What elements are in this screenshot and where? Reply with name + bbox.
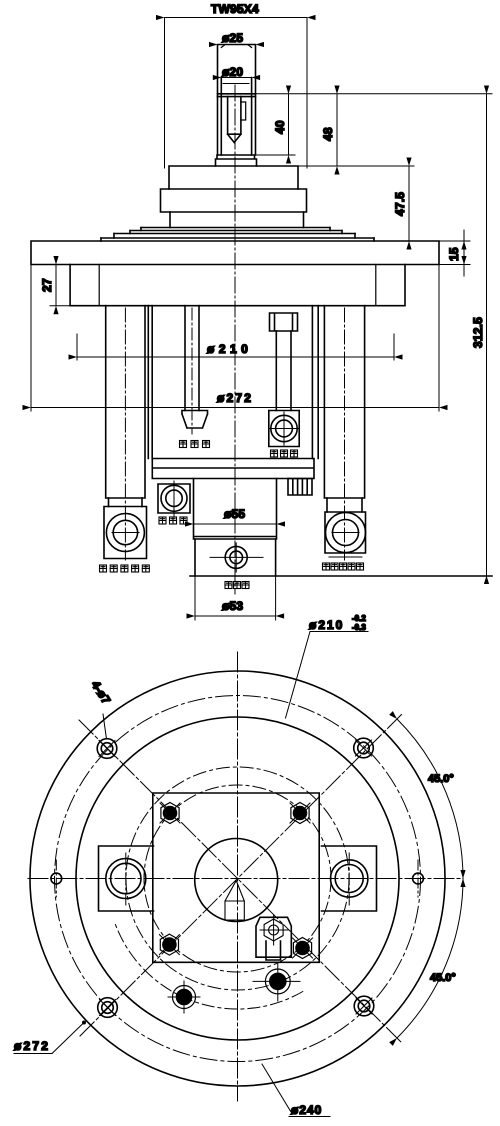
thread relief lines	[218, 94, 256, 97]
label outlet port	[271, 450, 298, 457]
diagonal hole TL	[97, 739, 117, 759]
dim ø25	[218, 44, 256, 46]
svg-text:15: 15	[447, 247, 461, 261]
svg-text:TW95X4: TW95X4	[211, 2, 259, 16]
dashed arc r130 through B5	[115, 923, 303, 1009]
svg-text:-0.2: -0.2	[352, 614, 366, 623]
left cylinder	[106, 306, 145, 498]
central keyway pocket	[225, 881, 244, 921]
diagonal hole BL	[98, 998, 118, 1018]
svg-text:48: 48	[321, 127, 335, 141]
right cylinder	[324, 306, 364, 498]
ring section 27	[70, 265, 405, 306]
corner bolt B3	[159, 934, 179, 955]
dim TW95X4	[165, 18, 308, 169]
spigot circle ø210	[76, 717, 399, 1040]
flange ø272	[31, 241, 439, 265]
shaft ø25 sleeve	[218, 45, 256, 156]
bolt B6	[253, 962, 300, 1001]
suction plug	[182, 411, 208, 429]
dim 47.5	[408, 166, 410, 241]
label right makeup oil	[323, 563, 364, 570]
svg-text:ø20: ø20	[222, 65, 243, 79]
svg-text:312.5: 312.5	[471, 317, 485, 348]
dashed circle inner r111	[126, 767, 349, 990]
dim 312.5	[486, 94, 488, 576]
comb plug right	[288, 479, 312, 496]
bolt circle ø240 dashed	[55, 696, 421, 1062]
right big fitting	[325, 512, 366, 553]
svg-text:-0.3: -0.3	[352, 623, 366, 632]
body barrel	[170, 212, 304, 228]
right port boss	[322, 846, 377, 911]
svg-text:27: 27	[40, 278, 54, 292]
dim 15	[439, 230, 470, 276]
label left drain	[100, 565, 150, 572]
bolt B5 below square	[168, 981, 200, 1013]
valve block	[256, 917, 291, 957]
svg-text:ø210: ø210	[207, 342, 252, 356]
pump plate	[152, 459, 314, 479]
corner bolt B4	[293, 938, 313, 959]
bell steps	[101, 228, 374, 239]
hex screw B7	[260, 915, 288, 945]
dim ø20	[221, 77, 251, 79]
dim 40	[257, 94, 296, 155]
svg-text:ø240: ø240	[291, 1103, 322, 1117]
svg-text:ø272: ø272	[14, 1039, 50, 1053]
center block ø55	[194, 479, 277, 540]
dim 48	[336, 94, 338, 166]
svg-text:47.5: 47.5	[393, 192, 407, 216]
outlet bolt head	[270, 313, 298, 331]
diagonal centerline NE-SW	[80, 715, 402, 1037]
outlet fitting	[269, 411, 299, 447]
svg-text:45.0°: 45.0°	[428, 773, 454, 785]
svg-text:ø210: ø210	[309, 618, 344, 632]
cardinal hole left	[51, 860, 62, 897]
suction tube	[185, 306, 199, 411]
svg-text:ø272: ø272	[217, 391, 253, 405]
corner bolt B2	[290, 803, 310, 824]
svg-text:ø25: ø25	[222, 31, 243, 45]
svg-text:ø53: ø53	[222, 599, 243, 613]
horizontal centerline	[28, 878, 463, 880]
diagonal hole BR	[354, 996, 374, 1016]
label suction port	[180, 441, 210, 448]
outlet tube	[276, 331, 291, 411]
mounting square	[153, 793, 319, 962]
extension line right from thread end	[256, 93, 493, 95]
central bore	[195, 839, 278, 922]
shaft collar	[216, 155, 257, 166]
pump housing walls	[148, 306, 318, 459]
body step1	[169, 166, 298, 189]
dim ø53	[195, 576, 276, 620]
outer circle ø272	[30, 671, 445, 1086]
center block ø53	[195, 539, 276, 576]
left big fitting	[104, 507, 147, 559]
diagonal hole TR	[354, 738, 374, 758]
angle dim arcs 45deg	[397, 719, 463, 1038]
body step2	[161, 189, 307, 212]
small left fitting	[158, 484, 190, 513]
svg-text:ø55: ø55	[224, 507, 245, 521]
dashed circle corner bolts r93	[144, 785, 331, 972]
key step	[241, 102, 246, 120]
svg-text:45.0°: 45.0°	[430, 972, 456, 984]
corner bolt B1	[160, 803, 180, 824]
dim ø272	[31, 265, 439, 412]
left port boss	[99, 846, 154, 911]
dim 27	[50, 265, 80, 306]
centerline main shaft axis	[234, 85, 236, 594]
label small oil lift	[225, 582, 249, 589]
keyway	[228, 97, 241, 135]
label big pump lift	[159, 517, 187, 524]
dim ø210	[77, 334, 394, 360]
svg-text:40: 40	[273, 120, 287, 134]
shaft ø20 lines	[221, 78, 251, 156]
cardinal hole right	[413, 860, 424, 897]
diagonal centerline NW-SE	[79, 720, 402, 1043]
vertical centerline	[237, 652, 239, 1101]
